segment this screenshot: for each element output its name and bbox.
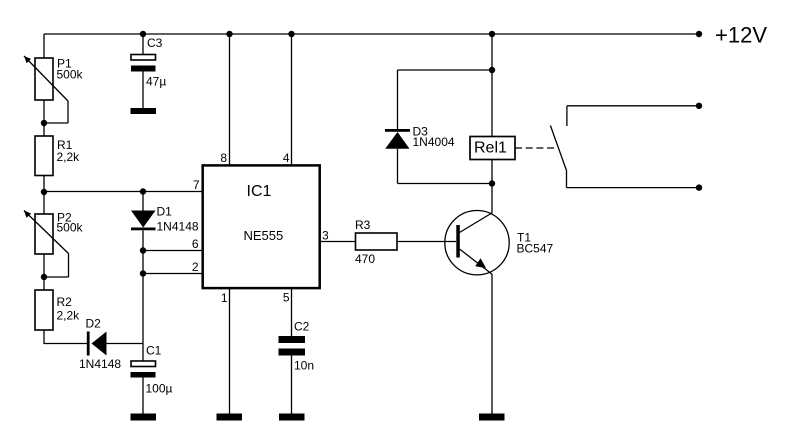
junction dot pin2: [140, 270, 146, 276]
node switch top terminal dot: [696, 103, 702, 109]
ground C1: [131, 414, 157, 421]
svg-text:470: 470: [355, 252, 375, 266]
switch blade: [550, 126, 566, 171]
junction dot pin6: [140, 247, 146, 253]
svg-text:IC1: IC1: [247, 183, 272, 200]
junction dot pin7/D1: [140, 188, 146, 194]
junction dot rail/pin4: [288, 31, 294, 37]
resistor R2: [35, 290, 53, 330]
potentiometer P1: [24, 56, 68, 123]
wire pin4 stub: [291, 34, 293, 165]
wire rail to relay: [491, 34, 493, 137]
diode D2: [87, 332, 107, 356]
diode D1: [131, 211, 156, 231]
svg-text:NE555: NE555: [244, 228, 284, 243]
wire D3 loop top: [398, 69, 493, 71]
svg-text:500k: 500k: [57, 68, 84, 82]
svg-text:100µ: 100µ: [146, 382, 173, 396]
wire pin7: [44, 191, 202, 193]
wire R1 to node pin7: [43, 176, 45, 215]
potentiometer P2: [24, 211, 69, 278]
svg-text:1N4004: 1N4004: [413, 135, 455, 149]
wire relay actuation dashed link: [515, 147, 558, 149]
node switch bottom terminal dot: [696, 184, 702, 190]
transistor T1: [445, 211, 509, 275]
svg-text:R2: R2: [57, 295, 73, 309]
svg-text:1: 1: [221, 291, 228, 305]
capacitor C2: [279, 336, 306, 356]
wire pin2: [143, 273, 202, 275]
wire D3 loop left lower: [397, 149, 399, 184]
svg-text:8: 8: [220, 151, 227, 165]
wire R3 to T1 base: [397, 241, 456, 243]
wire relay to collector: [491, 160, 493, 214]
ground T1 emitter: [479, 414, 505, 421]
wire C2 to ground: [291, 356, 293, 415]
svg-text:D2: D2: [86, 317, 102, 331]
diode D3: [385, 129, 410, 149]
capacitor C1: [131, 361, 156, 378]
wire pin1 stub to ground: [229, 288, 231, 414]
junction dot relay/D3 top: [489, 67, 495, 73]
svg-text:C1: C1: [146, 344, 162, 358]
relay coil Rel1: [470, 137, 515, 160]
junction dot relay/D3 bottom: [489, 180, 495, 186]
svg-text:47µ: 47µ: [146, 75, 166, 89]
svg-text:+12V: +12V: [715, 23, 767, 48]
svg-text:6: 6: [192, 237, 199, 251]
wire switch bottom: [567, 187, 700, 189]
wire rail to C3: [142, 34, 144, 55]
resistor R3: [356, 233, 398, 250]
svg-text:C2: C2: [294, 320, 310, 334]
wire P1 to R1: [43, 100, 45, 136]
wire R2 to D2: [44, 330, 87, 344]
svg-text:1N4148: 1N4148: [157, 220, 199, 234]
junction dot rail/C3: [140, 31, 146, 37]
capacitor C3: [131, 55, 156, 72]
wire switch top: [567, 105, 699, 107]
wire C1 to ground: [142, 378, 144, 415]
wire D3 loop left upper: [397, 70, 399, 130]
svg-text:2: 2: [192, 260, 199, 274]
wire D2 to C1 column: [107, 343, 144, 345]
junction dot rail/relay column: [489, 31, 495, 37]
svg-text:R3: R3: [355, 218, 371, 232]
svg-text:4: 4: [283, 151, 290, 165]
wire pin3 to R3: [320, 241, 356, 243]
wire pin5 stub: [291, 288, 293, 336]
wire rail to P1 top: [43, 34, 45, 58]
wire pin6: [143, 250, 202, 252]
wire D1 to pin6 node: [142, 231, 144, 274]
junction dot P1 wiper: [41, 120, 47, 126]
node +12V terminal dot: [696, 31, 702, 37]
+12V supply rail wire: [44, 33, 699, 35]
svg-text:2,2k: 2,2k: [57, 309, 81, 323]
svg-text:1N4148: 1N4148: [79, 357, 121, 371]
svg-text:BC547: BC547: [517, 242, 554, 256]
wire C3 to ground: [142, 72, 144, 110]
svg-text:5: 5: [283, 291, 290, 305]
svg-text:3: 3: [322, 229, 329, 243]
resistor R1: [35, 136, 53, 176]
wire pin7 node to D1: [142, 192, 144, 211]
svg-text:C3: C3: [147, 36, 163, 50]
junction dot rail/pin8: [226, 31, 232, 37]
junction dot R1/P2/pin7: [41, 189, 47, 195]
ground C3: [131, 108, 157, 114]
svg-text:Rel1: Rel1: [474, 140, 507, 157]
junction dot P2 wiper: [41, 274, 47, 280]
ground pin1: [217, 414, 243, 421]
svg-text:7: 7: [193, 178, 200, 192]
svg-text:D1: D1: [157, 205, 173, 219]
svg-text:2,2k: 2,2k: [57, 150, 81, 164]
svg-text:500k: 500k: [57, 221, 84, 235]
wire pin8 stub: [229, 34, 231, 165]
wire emitter to ground: [491, 274, 493, 414]
wire P2 to R2: [43, 254, 45, 290]
wire pin2 node to C1: [142, 274, 144, 362]
wire D3 loop bottom: [398, 183, 493, 185]
wire switch bottom stub: [566, 171, 568, 188]
ground C2: [279, 414, 305, 421]
switch contact Rel1 upper stub: [566, 106, 568, 126]
svg-text:10n: 10n: [294, 359, 314, 373]
op-amp/timer IC1 body: [203, 165, 320, 288]
